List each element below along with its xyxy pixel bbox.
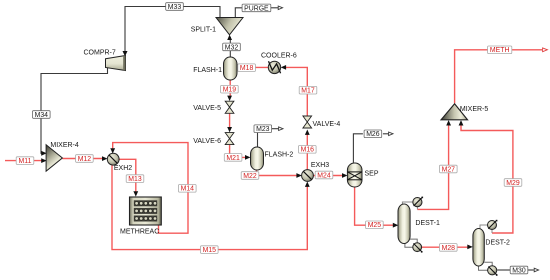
stream M29 distillate dest-2 to mixer-5 (461, 126, 513, 234)
label M33 (166, 3, 184, 11)
export arrow PURGE (278, 6, 282, 10)
svg-text:M30: M30 (512, 267, 526, 274)
stream M25 (355, 187, 394, 225)
condenser DEST-1 (413, 197, 423, 207)
svg-text:M21: M21 (226, 155, 240, 162)
gray plumbing dest-2 reboiler (479, 262, 493, 270)
stream M18 (241, 66, 268, 68)
svg-text:M29: M29 (506, 180, 520, 187)
arrow M11 into mixer-4 (41, 158, 47, 163)
arrow M17 into cooler-6 (281, 65, 286, 70)
arrow M14 into exh2 top (110, 148, 115, 153)
valve VALVE-4 (303, 116, 340, 128)
stream M13 (119, 159, 136, 192)
condenser DEST-2 (488, 220, 498, 230)
stream M17 (285, 67, 307, 115)
arrow M27 into mixer-5 (446, 120, 451, 125)
svg-text:METHREAC: METHREAC (120, 229, 159, 236)
svg-text:M15: M15 (203, 247, 217, 254)
label M14 (179, 185, 197, 193)
label M19 (221, 85, 239, 93)
export arrow M23 (279, 127, 283, 131)
valve VALVE-5 (193, 101, 234, 113)
svg-text:COMPR-7: COMPR-7 (84, 50, 116, 57)
svg-text:M26: M26 (366, 131, 380, 138)
stream M14 reactor effluent (113, 143, 188, 234)
wire M34 compressor to mixer (41, 68, 108, 154)
export arrow METH (543, 48, 548, 52)
wire PURGE export (235, 8, 278, 18)
svg-text:M16: M16 (301, 147, 315, 154)
label M11 (16, 157, 34, 165)
svg-text:EXH2: EXH2 (114, 165, 132, 172)
label M22 (241, 172, 259, 180)
arrow M25 into dest-1 (393, 223, 399, 228)
arrow M18 into flash-1 (237, 65, 242, 70)
wire M33 splitter to compressor (125, 7, 220, 53)
stream METH product (455, 50, 542, 103)
heat exchanger EXH3 (302, 162, 330, 182)
label METH (488, 46, 512, 54)
arrow M20 into valve-6 (227, 127, 232, 132)
label M29 (504, 179, 522, 187)
svg-text:SEP: SEP (365, 171, 379, 178)
svg-text:M32: M32 (225, 44, 239, 51)
label M18 (238, 64, 256, 72)
label M23 (254, 125, 272, 133)
svg-text:M12: M12 (78, 156, 92, 163)
wire M23 flash-2 vapor export (258, 129, 279, 147)
arrow M33 into compressor (123, 51, 128, 56)
stream M22 (257, 170, 298, 176)
gray plumbing dest-2 condenser (480, 225, 492, 233)
label M15 (201, 246, 219, 254)
heat exchanger EXH2 (107, 153, 132, 172)
label M21 (224, 154, 242, 162)
stream M15 (112, 165, 307, 249)
arrow M28 into dest-2 (467, 245, 473, 250)
wire M32 flash-1 to splitter (229, 37, 231, 57)
arrow M19 into valve-5 (227, 96, 232, 101)
stream M19 (229, 80, 231, 97)
splitter SPLIT-1 (191, 18, 243, 35)
svg-text:M23: M23 (256, 126, 270, 133)
reboiler DEST-1 (413, 243, 423, 253)
svg-text:PURGE: PURGE (244, 5, 269, 12)
svg-text:M14: M14 (181, 186, 195, 193)
mixer MIXER-4 (46, 142, 79, 171)
svg-text:M22: M22 (243, 173, 257, 180)
svg-text:DEST-1: DEST-1 (415, 220, 440, 227)
gray plumbing dest-1 condenser (402, 202, 417, 209)
label M12 (76, 155, 94, 163)
compressor COMPR-7 (84, 50, 126, 71)
reactor METHREAC (120, 197, 161, 236)
label M26 (364, 130, 382, 138)
svg-text:EXH3: EXH3 (311, 162, 329, 169)
stream M20 valve-5 to valve-6 (229, 114, 231, 128)
svg-text:M13: M13 (128, 176, 142, 183)
svg-text:M19: M19 (223, 87, 237, 94)
flash drum FLASH-2 (251, 147, 294, 170)
svg-text:MIXER-4: MIXER-4 (50, 142, 79, 149)
stream M21 (230, 145, 247, 158)
flash drum FLASH-1 (193, 57, 237, 80)
label M32 (223, 43, 241, 51)
label M24 (315, 171, 333, 179)
svg-text:FLASH-1: FLASH-1 (193, 67, 222, 74)
svg-text:METH: METH (490, 47, 510, 54)
stream M28 dest-1 bottoms (421, 246, 468, 248)
valve VALVE-6 (193, 133, 234, 145)
label PURGE (242, 4, 271, 12)
svg-text:FLASH-2: FLASH-2 (265, 152, 294, 159)
arrow M21 into flash-2 (245, 155, 251, 160)
svg-text:M27: M27 (442, 166, 456, 173)
stream M24 (313, 175, 343, 177)
svg-text:SPLIT-1: SPLIT-1 (191, 27, 216, 34)
separator SEP (347, 163, 378, 187)
svg-text:M28: M28 (442, 245, 456, 252)
stream M11 feed (5, 160, 43, 162)
svg-text:M17: M17 (301, 88, 315, 95)
label M13 (126, 175, 144, 183)
arrow M32 into split-1 (227, 35, 232, 40)
wire M30 dest-2 bottoms export (497, 269, 534, 271)
label M30 (510, 266, 528, 274)
label M27 (440, 165, 458, 173)
svg-text:VALVE-4: VALVE-4 (313, 121, 341, 128)
export arrow M30 (534, 268, 538, 272)
svg-text:MIXER-5: MIXER-5 (460, 106, 489, 113)
stream M16 (306, 134, 308, 170)
arrow M29 into mixer-5 (459, 120, 464, 125)
svg-text:DEST-2: DEST-2 (485, 239, 510, 246)
svg-text:M11: M11 (19, 158, 32, 165)
svg-text:M24: M24 (317, 172, 331, 179)
wire M26 sep vapor export (353, 134, 388, 163)
svg-text:M25: M25 (368, 222, 382, 229)
label M34 (33, 111, 51, 119)
svg-text:VALVE-6: VALVE-6 (193, 138, 221, 145)
arrow M13 into methreac (133, 191, 138, 196)
arrow M12 into exh2 (102, 156, 108, 161)
cooler COOLER-6 (261, 53, 297, 74)
svg-text:M33: M33 (168, 4, 182, 11)
arrow M15 into exh3 bottom (305, 182, 310, 187)
stream M27 distillate dest-1 to mixer-5 (417, 126, 448, 210)
export arrow M26 (389, 132, 393, 136)
svg-text:VALVE-5: VALVE-5 (193, 105, 221, 112)
column DEST-2 (473, 229, 510, 267)
svg-text:COOLER-6: COOLER-6 (261, 53, 297, 60)
label M16 (299, 146, 317, 154)
svg-text:M18: M18 (240, 65, 254, 72)
arrow M34 into mixer-4 (41, 151, 47, 156)
arrow M24 into sep (342, 173, 348, 178)
mixer MIXER-5 (441, 104, 488, 120)
gray plumbing dest-1 reboiler (405, 239, 417, 247)
stream M12 (62, 158, 103, 160)
label M17 (299, 86, 317, 94)
label M25 (366, 221, 384, 229)
column DEST-1 (398, 204, 440, 244)
arrow M16 into valve-4 (305, 130, 310, 135)
svg-text:M34: M34 (35, 112, 49, 119)
arrow M22 into exh3 (296, 173, 302, 178)
label M28 (440, 244, 458, 252)
reboiler DEST-2 (488, 266, 498, 276)
